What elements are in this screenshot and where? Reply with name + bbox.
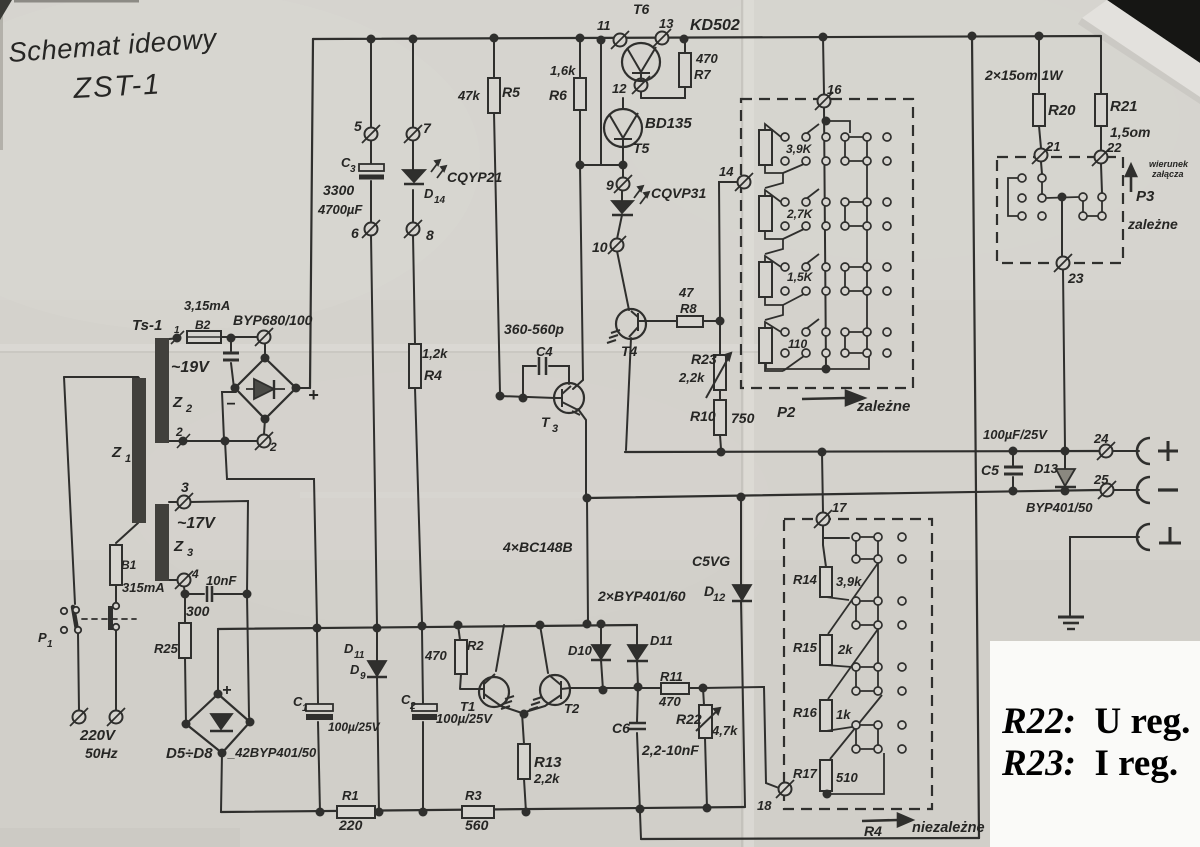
svg-text:16: 16 <box>827 82 842 97</box>
svg-text:11: 11 <box>354 650 365 661</box>
svg-text:T2: T2 <box>564 701 580 716</box>
svg-text:220V: 220V <box>79 727 117 744</box>
svg-text:T: T <box>541 414 551 430</box>
svg-text:CQYP21: CQYP21 <box>447 169 502 185</box>
svg-text:2: 2 <box>269 440 277 454</box>
svg-text:10: 10 <box>592 239 608 255</box>
svg-text:zależne: zależne <box>856 398 910 415</box>
svg-text:P: P <box>38 630 47 645</box>
svg-text:P2: P2 <box>777 404 796 421</box>
svg-text:470: 470 <box>424 648 447 663</box>
svg-text:4×BC148B: 4×BC148B <box>502 539 573 555</box>
svg-text:2: 2 <box>409 701 416 712</box>
svg-text:12: 12 <box>713 592 725 604</box>
svg-text:6: 6 <box>351 225 359 241</box>
svg-text:D: D <box>344 641 354 656</box>
svg-text:360-560p: 360-560p <box>504 321 564 337</box>
svg-text:Z: Z <box>173 538 184 555</box>
svg-text:R6: R6 <box>549 87 567 103</box>
svg-text:1: 1 <box>174 325 180 336</box>
svg-text:18: 18 <box>757 798 772 813</box>
svg-text:T1: T1 <box>460 699 475 714</box>
svg-text:R22: U reg.: R22: U reg. <box>1001 701 1190 742</box>
svg-text:R2: R2 <box>467 638 484 653</box>
svg-text:25: 25 <box>1093 472 1109 487</box>
svg-text:4,7k: 4,7k <box>711 723 738 738</box>
svg-text:3,15mA: 3,15mA <box>184 298 230 313</box>
svg-text:2: 2 <box>175 425 183 439</box>
svg-text:100µ/25V: 100µ/25V <box>328 720 381 734</box>
svg-text:1k: 1k <box>836 707 851 722</box>
svg-text:510: 510 <box>836 770 858 785</box>
svg-text:D13: D13 <box>1034 461 1059 476</box>
svg-text:R4: R4 <box>864 823 882 839</box>
svg-text:17: 17 <box>832 500 847 515</box>
svg-text:D11: D11 <box>650 633 673 648</box>
svg-text:R21: R21 <box>1110 98 1138 115</box>
svg-text:D: D <box>350 662 360 677</box>
svg-text:4700µF: 4700µF <box>317 202 363 217</box>
svg-text:niezależne: niezależne <box>912 820 985 836</box>
svg-text:+: + <box>308 385 319 405</box>
svg-text:R3: R3 <box>465 788 482 803</box>
svg-text:−: − <box>226 396 235 413</box>
svg-text:R25: R25 <box>154 641 179 656</box>
svg-text:C4: C4 <box>536 344 553 359</box>
svg-text:D10: D10 <box>568 643 593 658</box>
svg-text:zależne: zależne <box>1127 216 1178 232</box>
svg-text:2×15om 1W: 2×15om 1W <box>984 67 1064 83</box>
svg-text:1: 1 <box>125 453 131 465</box>
svg-text:13: 13 <box>659 16 674 31</box>
svg-text:T4: T4 <box>621 343 638 359</box>
svg-text:wierunek: wierunek <box>1149 159 1189 169</box>
svg-text:1,5om: 1,5om <box>1110 124 1150 140</box>
svg-text:9: 9 <box>360 671 366 682</box>
svg-text:D: D <box>424 186 434 201</box>
svg-text:3,9K: 3,9K <box>786 142 813 156</box>
svg-text:R16: R16 <box>793 705 818 720</box>
svg-text:2,2k: 2,2k <box>533 771 560 786</box>
svg-text:R1: R1 <box>342 788 359 803</box>
svg-text:50Hz: 50Hz <box>85 745 118 761</box>
svg-text:R23: I reg.: R23: I reg. <box>1001 743 1178 784</box>
svg-text:T6: T6 <box>633 1 650 17</box>
svg-text:BYP680/100: BYP680/100 <box>233 312 313 328</box>
svg-text:Ts-1: Ts-1 <box>132 317 162 334</box>
svg-text:R5: R5 <box>502 84 520 100</box>
svg-text:załącza: załącza <box>1151 169 1184 179</box>
svg-text:2,7K: 2,7K <box>786 207 814 221</box>
svg-text:8: 8 <box>426 227 434 243</box>
svg-text:CQVP31: CQVP31 <box>651 185 706 201</box>
svg-text:14: 14 <box>434 195 446 206</box>
svg-text:Z: Z <box>172 394 183 411</box>
svg-text:R4: R4 <box>424 367 442 383</box>
svg-text:R23: R23 <box>691 351 717 367</box>
svg-text:11: 11 <box>597 18 611 33</box>
svg-text:C6: C6 <box>612 720 630 736</box>
svg-text:47k: 47k <box>457 88 480 103</box>
svg-text:100µF/25V: 100µF/25V <box>983 427 1048 442</box>
svg-text:12: 12 <box>612 81 627 96</box>
svg-text:Z: Z <box>111 444 122 461</box>
svg-text:R14: R14 <box>793 572 818 587</box>
svg-text:23: 23 <box>1067 270 1084 286</box>
svg-text:7: 7 <box>423 120 432 136</box>
svg-text:BYP401/50: BYP401/50 <box>1026 500 1093 515</box>
svg-text:1: 1 <box>47 639 53 650</box>
svg-text:3: 3 <box>181 479 189 495</box>
svg-text:2k: 2k <box>837 642 853 657</box>
svg-text:110: 110 <box>788 337 807 351</box>
svg-text:470: 470 <box>658 694 681 709</box>
svg-text:315mA: 315mA <box>122 580 165 595</box>
svg-text:R22: R22 <box>676 711 702 727</box>
svg-text:3300: 3300 <box>323 182 354 198</box>
svg-text:C5VG: C5VG <box>692 553 730 569</box>
svg-text:3: 3 <box>552 423 558 435</box>
svg-text:220: 220 <box>338 817 363 833</box>
svg-text:KD502: KD502 <box>690 17 740 34</box>
svg-text:T5: T5 <box>633 140 650 156</box>
svg-text:14: 14 <box>719 164 734 179</box>
svg-text:ZST-1: ZST-1 <box>72 68 162 105</box>
svg-text:BD135: BD135 <box>645 115 692 132</box>
svg-text:R13: R13 <box>534 754 562 771</box>
svg-text:5: 5 <box>354 118 362 134</box>
svg-text:3,9k: 3,9k <box>836 574 862 589</box>
svg-text:1: 1 <box>302 703 308 714</box>
svg-text:R20: R20 <box>1048 102 1076 119</box>
svg-text:560: 560 <box>465 817 489 833</box>
svg-text:D5÷D8: D5÷D8 <box>166 745 213 762</box>
svg-text:21: 21 <box>1045 139 1060 154</box>
svg-text:B1: B1 <box>121 558 137 572</box>
svg-text:R8: R8 <box>680 301 697 316</box>
svg-text:~17V: ~17V <box>177 515 216 532</box>
svg-text:4: 4 <box>191 567 199 581</box>
svg-text:R7: R7 <box>694 67 711 82</box>
svg-text:_42BYP401/50: _42BYP401/50 <box>227 745 317 760</box>
svg-text:3: 3 <box>187 547 193 559</box>
svg-text:470: 470 <box>695 51 718 66</box>
svg-text:2: 2 <box>185 403 192 415</box>
svg-text:1,2k: 1,2k <box>422 346 448 361</box>
svg-text:22: 22 <box>1106 140 1122 155</box>
svg-text:R11: R11 <box>660 669 683 684</box>
svg-text:3: 3 <box>350 164 356 175</box>
svg-text:2,2k: 2,2k <box>678 370 705 385</box>
svg-text:+: + <box>222 682 231 699</box>
svg-text:300: 300 <box>186 603 210 619</box>
svg-text:1,5K: 1,5K <box>787 270 814 284</box>
svg-text:47: 47 <box>678 285 694 300</box>
svg-text:2×BYP401/60: 2×BYP401/60 <box>597 588 686 604</box>
svg-text:R10: R10 <box>690 408 716 424</box>
svg-text:2,2-10nF: 2,2-10nF <box>641 742 699 758</box>
svg-text:~19V: ~19V <box>171 359 210 376</box>
svg-text:1,6k: 1,6k <box>550 63 576 78</box>
svg-text:R15: R15 <box>793 640 818 655</box>
svg-text:9: 9 <box>606 177 614 193</box>
svg-text:24: 24 <box>1093 431 1109 446</box>
svg-text:750: 750 <box>731 410 755 426</box>
svg-text:10nF: 10nF <box>206 573 237 588</box>
svg-text:C5: C5 <box>981 462 999 478</box>
svg-text:B2: B2 <box>195 318 211 332</box>
svg-text:R17: R17 <box>793 766 818 781</box>
svg-text:P3: P3 <box>1136 188 1155 205</box>
